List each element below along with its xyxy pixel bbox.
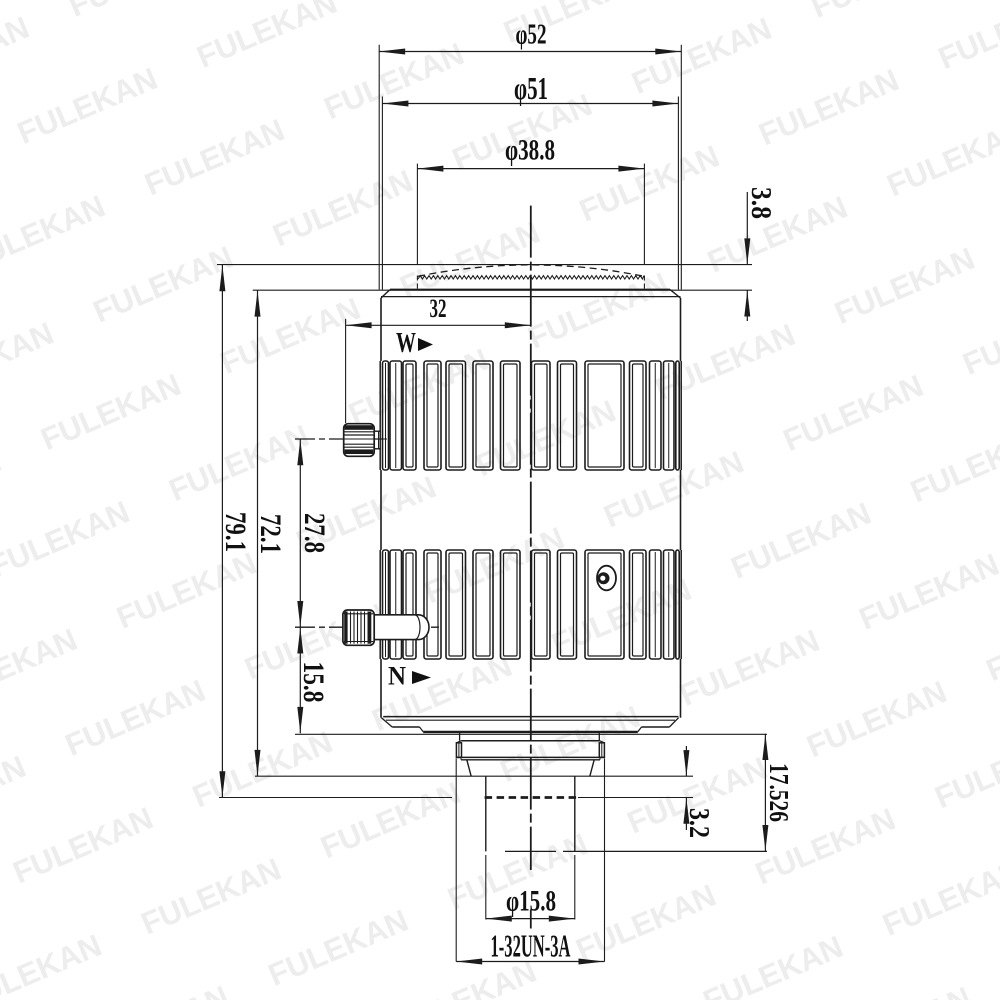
svg-text:FULEKAN: FULEKAN bbox=[343, 342, 493, 432]
svg-text:FULEKAN: FULEKAN bbox=[0, 494, 134, 584]
svg-text:N: N bbox=[388, 662, 406, 691]
svg-text:FULEKAN: FULEKAN bbox=[192, 0, 342, 75]
svg-text:FULEKAN: FULEKAN bbox=[826, 980, 976, 1000]
svg-text:FULEKAN: FULEKAN bbox=[726, 495, 876, 585]
svg-text:FULEKAN: FULEKAN bbox=[981, 598, 1000, 688]
svg-text:FULEKAN: FULEKAN bbox=[882, 113, 1000, 203]
svg-text:15.8: 15.8 bbox=[297, 662, 330, 703]
svg-text:FULEKAN: FULEKAN bbox=[268, 163, 418, 253]
svg-text:FULEKAN: FULEKAN bbox=[316, 775, 466, 865]
svg-text:FULEKAN: FULEKAN bbox=[0, 188, 110, 278]
svg-text:FULEKAN: FULEKAN bbox=[8, 800, 158, 890]
svg-text:FULEKAN: FULEKAN bbox=[574, 138, 724, 228]
svg-text:FULEKAN: FULEKAN bbox=[0, 443, 6, 533]
svg-text:FULEKAN: FULEKAN bbox=[698, 929, 848, 1000]
svg-text:FULEKAN: FULEKAN bbox=[140, 112, 290, 202]
svg-text:FULEKAN: FULEKAN bbox=[215, 291, 365, 381]
svg-text:FULEKAN: FULEKAN bbox=[933, 0, 1000, 76]
svg-text:FULEKAN: FULEKAN bbox=[187, 724, 337, 814]
svg-text:FULEKAN: FULEKAN bbox=[164, 418, 314, 508]
svg-text:FULEKAN: FULEKAN bbox=[136, 851, 286, 941]
svg-text:FULEKAN: FULEKAN bbox=[495, 699, 645, 789]
svg-text:φ15.8: φ15.8 bbox=[506, 885, 556, 918]
svg-text:FULEKAN: FULEKAN bbox=[830, 241, 980, 331]
svg-text:17.526: 17.526 bbox=[764, 763, 794, 822]
svg-text:79.1: 79.1 bbox=[219, 512, 252, 552]
svg-text:27.8: 27.8 bbox=[298, 513, 331, 553]
svg-text:FULEKAN: FULEKAN bbox=[60, 673, 210, 763]
svg-text:FULEKAN: FULEKAN bbox=[854, 546, 1000, 636]
svg-text:FULEKAN: FULEKAN bbox=[675, 623, 825, 713]
svg-text:3.8: 3.8 bbox=[745, 187, 777, 219]
svg-text:φ38.8: φ38.8 bbox=[505, 134, 555, 167]
svg-text:FULEKAN: FULEKAN bbox=[806, 0, 956, 25]
svg-text:FULEKAN: FULEKAN bbox=[905, 419, 1000, 509]
svg-text:FULEKAN: FULEKAN bbox=[263, 903, 413, 993]
svg-text:FULEKAN: FULEKAN bbox=[88, 239, 238, 329]
svg-text:FULEKAN: FULEKAN bbox=[958, 292, 1000, 382]
svg-text:FULEKAN: FULEKAN bbox=[0, 10, 34, 100]
svg-text:1-32UN-3A: 1-32UN-3A bbox=[491, 928, 571, 964]
svg-text:FULEKAN: FULEKAN bbox=[12, 61, 162, 151]
svg-text:FULEKAN: FULEKAN bbox=[930, 725, 1000, 815]
svg-text:FULEKAN: FULEKAN bbox=[64, 0, 214, 24]
svg-text:FULEKAN: FULEKAN bbox=[0, 749, 31, 839]
svg-text:FULEKAN: FULEKAN bbox=[0, 622, 82, 712]
svg-text:FULEKAN: FULEKAN bbox=[84, 979, 234, 1000]
svg-text:FULEKAN: FULEKAN bbox=[0, 316, 59, 406]
svg-text:FULEKAN: FULEKAN bbox=[112, 545, 262, 635]
svg-text:FULEKAN: FULEKAN bbox=[319, 36, 469, 126]
svg-text:φ51: φ51 bbox=[514, 70, 548, 106]
svg-text:φ52: φ52 bbox=[516, 20, 547, 51]
svg-text:3.2: 3.2 bbox=[683, 808, 715, 838]
svg-text:FULEKAN: FULEKAN bbox=[754, 62, 904, 152]
svg-text:FULEKAN: FULEKAN bbox=[0, 927, 107, 1000]
svg-text:FULEKAN: FULEKAN bbox=[571, 877, 721, 967]
svg-text:72.1: 72.1 bbox=[254, 514, 287, 554]
svg-text:FULEKAN: FULEKAN bbox=[878, 853, 1000, 943]
svg-text:FULEKAN: FULEKAN bbox=[778, 368, 928, 458]
svg-text:FULEKAN: FULEKAN bbox=[802, 674, 952, 764]
svg-text:FULEKAN: FULEKAN bbox=[627, 11, 777, 101]
svg-text:FULEKAN: FULEKAN bbox=[36, 367, 186, 457]
svg-text:W: W bbox=[396, 327, 416, 359]
svg-text:32: 32 bbox=[430, 294, 447, 323]
